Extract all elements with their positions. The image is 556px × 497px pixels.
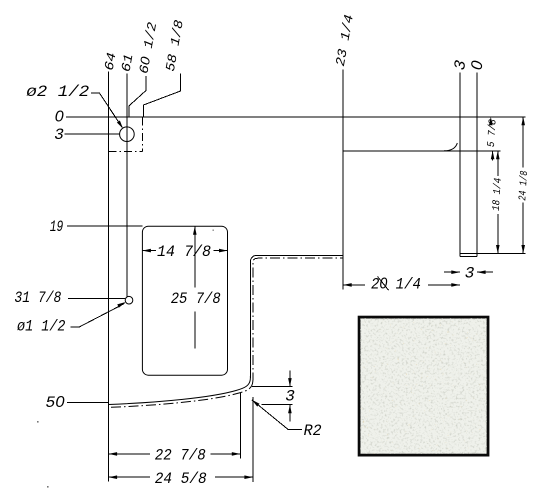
svg-text:24 1/8: 24 1/8 — [517, 170, 531, 201]
svg-text:20 1/4: 20 1/4 — [371, 276, 421, 294]
arrowhead leader R2 — [251, 398, 260, 406]
wire dia 1 1/2 leader — [70, 304, 124, 328]
svg-text:5 7/8: 5 7/8 — [486, 119, 500, 148]
arrowheads dimension 24 1/8 — [521, 117, 525, 126]
extension line 22 7/8 right — [239, 393, 241, 459]
svg-text:23 1/4: 23 1/4 — [333, 13, 357, 67]
circle faucet hole dia 2 1/2 — [120, 127, 135, 142]
sink cutout rounded rectangle — [142, 226, 227, 375]
svg-text:25 7/8: 25 7/8 — [171, 290, 221, 308]
slash swash on zero of 20 1/4 — [378, 277, 389, 291]
wire 3 right ordinate leader — [459, 73, 461, 257]
arrowheads dimension 18 1/4 — [496, 151, 500, 160]
extension line 24 5/8 right — [252, 397, 254, 482]
arrowheads dimension 24 5/8 — [109, 475, 118, 479]
hidden edge backsplash right — [142, 118, 144, 152]
svg-text:24 5/8: 24 5/8 — [155, 470, 207, 488]
dimension 5 7/8 arrows — [492, 151, 494, 161]
dimension 24 1/8 line — [522, 117, 524, 168]
hidden edge backsplash bottom — [109, 150, 143, 152]
wire 0 right ordinate leader — [476, 73, 478, 257]
arrowheads dimension 14 7/8 — [142, 249, 151, 253]
svg-text:3: 3 — [465, 264, 475, 282]
arrowhead dimension 25 7/8 — [193, 226, 197, 235]
dimension 3 corner extension lines — [252, 386, 293, 388]
arrowheads dimension 22 7/8 — [109, 452, 118, 456]
noise speck — [47, 486, 49, 488]
dimension 20 1/4 line — [343, 284, 365, 286]
front edge dash-dot offset — [109, 380, 253, 407]
svg-text:14 7/8: 14 7/8 — [157, 243, 211, 261]
svg-text:3: 3 — [54, 126, 64, 144]
wire R2 leader — [252, 400, 302, 430]
wire 50 leader — [67, 401, 109, 403]
svg-text:0: 0 — [55, 109, 64, 126]
wire hole centerline x=61 ordinate — [126, 74, 128, 297]
arrowheads dimension 20 1/4 — [343, 283, 352, 287]
wire dia 2 1/2 leader — [91, 93, 122, 127]
noise speck — [37, 421, 39, 423]
arrowhead leader dia 2 1/2 — [117, 120, 125, 129]
svg-text:ø2 1/2: ø2 1/2 — [26, 83, 89, 101]
right backsplash front line with fillet — [343, 150, 500, 152]
svg-text:ø1 1/2: ø1 1/2 — [17, 318, 66, 336]
svg-text:50: 50 — [46, 394, 65, 412]
wire 58 1/8 ordinate leader — [144, 74, 181, 117]
svg-text:0: 0 — [468, 59, 486, 71]
svg-text:3: 3 — [451, 58, 470, 71]
arrowhead leader dia 1 1/2 — [117, 300, 126, 307]
svg-text:R2: R2 — [304, 422, 322, 440]
svg-text:58 1/8: 58 1/8 — [163, 19, 187, 73]
front edge solid corner run — [250, 255, 343, 378]
arrowheads dimension 3 end splash — [451, 270, 460, 274]
wire 19 leader — [67, 225, 142, 227]
material swatch — [359, 317, 488, 455]
dimension 22 7/8 line — [109, 453, 150, 455]
wire 3 left leader — [65, 133, 120, 135]
wire 60 1/2 ordinate leader — [129, 76, 146, 117]
dimension 25 7/8 line — [194, 226, 196, 287]
svg-text:18 1/4: 18 1/4 — [491, 178, 505, 212]
svg-text:64: 64 — [102, 51, 120, 72]
circle hole dia 1 1/2 — [125, 296, 133, 304]
svg-text:61: 61 — [119, 53, 137, 73]
wire 31 7/8 leader — [68, 298, 125, 300]
svg-text:60 1/2: 60 1/2 — [135, 21, 160, 75]
arrowheads dimension 3 corner — [288, 378, 292, 387]
dimension 14 7/8 line — [142, 250, 156, 252]
wire left edge x=64 ordinate — [108, 72, 110, 482]
dimension 3 corner arrow lines — [289, 371, 291, 387]
end splash bottom double line — [460, 253, 526, 255]
wire 23 1/4 ordinate leader — [342, 70, 344, 290]
arrowheads dimension 5 7/8 — [489, 117, 493, 126]
svg-text:22 7/8: 22 7/8 — [155, 447, 206, 465]
svg-text:31 7/8: 31 7/8 — [14, 289, 61, 307]
dimension 18 1/4 line — [497, 151, 499, 176]
dimension 3 end splash line — [444, 271, 460, 273]
wire top edge / 0 leader / extension — [66, 116, 525, 118]
front edge dash-dot offset corner run — [253, 258, 343, 380]
front edge solid curve with R2 fillet and corner — [109, 376, 251, 405]
svg-text:19: 19 — [50, 218, 64, 236]
dimension 24 5/8 line — [109, 476, 150, 478]
svg-text:3: 3 — [285, 387, 295, 405]
noise speck — [213, 230, 214, 231]
